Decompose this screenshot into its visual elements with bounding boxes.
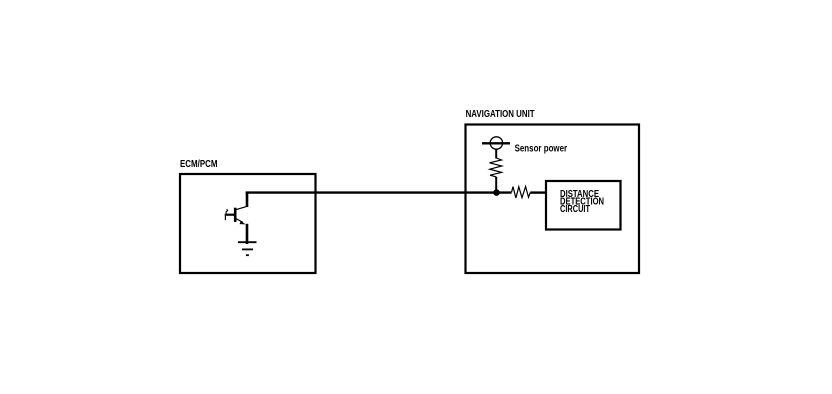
svg-text:Sensor power: Sensor power (515, 143, 568, 155)
wire main horizontal from transistor collector to node A (246, 191, 512, 193)
base lead (225, 214, 234, 216)
svg-text:NAVIGATION UNIT: NAVIGATION UNIT (466, 108, 535, 120)
resistor R2 (series, horizontal zigzag) (512, 187, 531, 199)
ECM/PCM box (180, 174, 316, 273)
wire from resistor R2 to distance detection circuit (530, 191, 546, 193)
transistor Q1 (NPN) (225, 192, 247, 244)
emitter diagonal (236, 219, 243, 223)
collector lead (246, 192, 249, 207)
base lead hook (226, 209, 228, 213)
resistor R1 (pull-up, vertical zigzag) (490, 158, 502, 177)
svg-text:ECM/PCM: ECM/PCM (180, 158, 218, 170)
ground (238, 242, 257, 255)
navigation unit box (466, 125, 640, 274)
wire from sensor power to resistor R1 (495, 149, 497, 159)
collector diagonal (236, 206, 247, 209)
base bar (234, 208, 237, 222)
base lead tick (224, 216, 226, 221)
wire from resistor R1 to node A (495, 177, 497, 193)
distance detection circuit box U2 (546, 181, 621, 230)
node A (junction dot) (493, 189, 500, 196)
label DISTANCE DETECTION CIRCUIT (560, 188, 604, 215)
sensor power source terminal (482, 137, 510, 149)
emitter arrow (240, 221, 246, 225)
svg-text:CIRCUIT: CIRCUIT (560, 203, 590, 215)
emitter lead (246, 224, 249, 244)
